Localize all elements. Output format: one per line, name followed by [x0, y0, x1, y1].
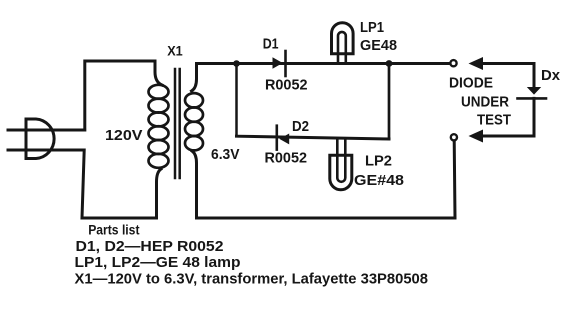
svg-text:TEST: TEST: [477, 112, 511, 128]
svg-text:X1—120V to 6.3V, transformer,: X1—120V to 6.3V, transformer, Lafayette …: [75, 272, 429, 288]
svg-text:R0052: R0052: [265, 78, 308, 94]
svg-text:LP1: LP1: [360, 20, 384, 36]
svg-text:DIODE: DIODE: [449, 75, 493, 91]
svg-text:6.3V: 6.3V: [211, 147, 240, 163]
svg-text:R0052: R0052: [265, 150, 308, 166]
svg-text:GE#48: GE#48: [354, 173, 404, 189]
svg-text:120V: 120V: [105, 128, 143, 144]
svg-text:D1: D1: [263, 37, 279, 53]
svg-text:UNDER: UNDER: [461, 95, 509, 111]
svg-text:Parts list: Parts list: [88, 223, 140, 239]
svg-text:Dx: Dx: [541, 68, 560, 84]
svg-text:D1, D2—HEP R0052: D1, D2—HEP R0052: [76, 239, 224, 255]
svg-text:D2: D2: [292, 119, 309, 135]
svg-text:GE48: GE48: [360, 38, 397, 54]
svg-text:LP1, LP2—GE 48 lamp: LP1, LP2—GE 48 lamp: [75, 255, 241, 271]
svg-text:X1: X1: [167, 44, 183, 59]
svg-text:LP2: LP2: [365, 153, 392, 169]
